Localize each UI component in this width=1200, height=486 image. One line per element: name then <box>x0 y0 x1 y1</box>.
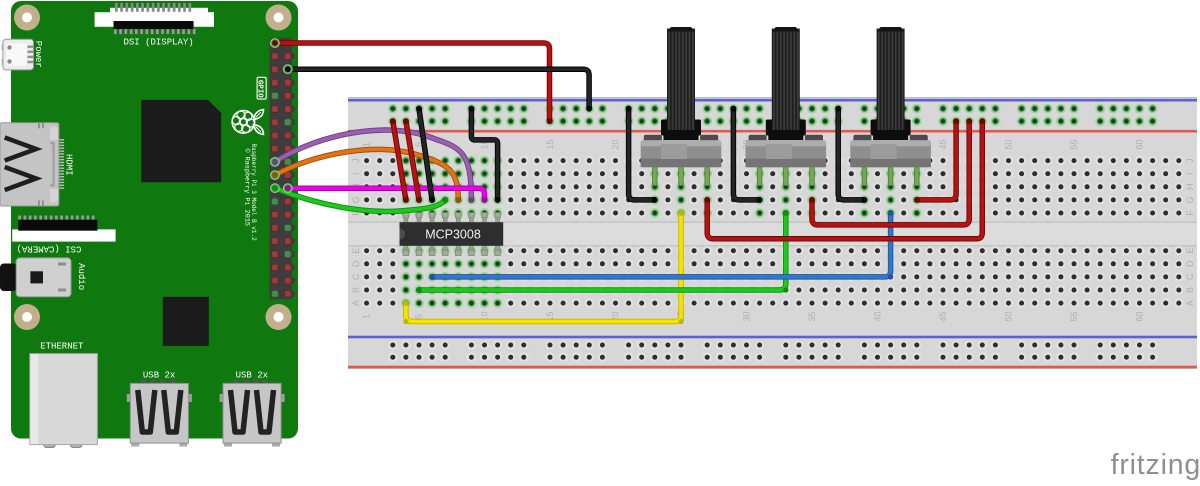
svg-text:C: C <box>1185 273 1195 280</box>
svg-text:I: I <box>1185 172 1195 175</box>
svg-text:C: C <box>351 273 361 280</box>
svg-text:60: 60 <box>1135 311 1145 321</box>
svg-text:USB 2x: USB 2x <box>236 370 268 380</box>
svg-text:G: G <box>1185 196 1195 203</box>
svg-text:E: E <box>1185 248 1195 254</box>
svg-text:45: 45 <box>938 139 948 149</box>
svg-text:J: J <box>351 158 361 163</box>
svg-text:Audio: Audio <box>76 263 86 290</box>
svg-text:D: D <box>351 260 361 267</box>
svg-text:50: 50 <box>1004 139 1014 149</box>
svg-text:DSI (DISPLAY): DSI (DISPLAY) <box>123 38 193 48</box>
svg-text:1: 1 <box>362 142 372 147</box>
svg-text:A: A <box>351 300 361 306</box>
svg-text:CSI (CAMERA): CSI (CAMERA) <box>17 244 82 254</box>
svg-text:30: 30 <box>742 311 752 321</box>
svg-text:I: I <box>351 172 361 175</box>
svg-text:20: 20 <box>611 139 621 149</box>
svg-text:35: 35 <box>807 311 817 321</box>
svg-text:G: G <box>351 196 361 203</box>
svg-text:Power: Power <box>33 41 43 68</box>
svg-text:H: H <box>1185 184 1195 191</box>
svg-text:F: F <box>1185 210 1195 216</box>
svg-text:1: 1 <box>362 314 372 319</box>
svg-text:E: E <box>351 248 361 254</box>
svg-text:© Raspberry Pi 2015: © Raspberry Pi 2015 <box>242 149 251 226</box>
svg-text:40: 40 <box>873 311 883 321</box>
svg-text:A: A <box>1185 300 1195 306</box>
svg-text:55: 55 <box>1069 139 1079 149</box>
svg-text:HDMI: HDMI <box>64 154 74 176</box>
svg-text:B: B <box>351 287 361 293</box>
svg-text:MCP3008: MCP3008 <box>425 227 481 241</box>
svg-text:J: J <box>1185 158 1195 163</box>
svg-text:45: 45 <box>938 311 948 321</box>
svg-text:55: 55 <box>1069 311 1079 321</box>
svg-text:B: B <box>1185 287 1195 293</box>
svg-text:60: 60 <box>1135 139 1145 149</box>
svg-text:5: 5 <box>414 314 424 319</box>
svg-text:50: 50 <box>1004 311 1014 321</box>
svg-text:D: D <box>1185 260 1195 267</box>
svg-text:fritzing: fritzing <box>1111 449 1200 481</box>
svg-text:GPIO: GPIO <box>256 80 264 98</box>
svg-text:USB 2x: USB 2x <box>143 370 175 380</box>
svg-text:ETHERNET: ETHERNET <box>40 342 84 352</box>
svg-text:15: 15 <box>545 139 555 149</box>
